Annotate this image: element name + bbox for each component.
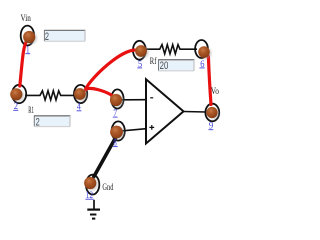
node 6 terminal ellipse — [195, 40, 208, 58]
node 5 number label — [137, 60, 142, 70]
node 7 ball — [112, 95, 124, 107]
red wire node6 to node9 — [208, 57, 211, 105]
node 2 terminal ellipse — [12, 85, 26, 103]
op-amp minus sign — [150, 97, 153, 99]
wire node7 to op-amp minus input — [120, 99, 146, 101]
svg-text:20: 20 — [160, 60, 169, 72]
ground node ball — [86, 178, 98, 190]
red wire node4 to node5 — [86, 50, 135, 90]
node 6 number label — [200, 60, 205, 70]
node 9 number label — [209, 121, 214, 131]
svg-text:2: 2 — [36, 116, 40, 128]
node 5 ball — [137, 46, 149, 58]
svg-text:Gnd: Gnd — [102, 183, 113, 193]
wire op-amp output to node9 — [184, 111, 207, 114]
value box for Vin (2) — [44, 30, 86, 43]
node 6 ball — [200, 48, 211, 59]
value box for Rf (20) — [158, 60, 194, 72]
op-amp plus sign — [149, 125, 154, 130]
node 8 terminal ellipse — [112, 121, 125, 140]
node 8 number label — [113, 138, 118, 148]
value box for R1 (2) — [34, 116, 71, 129]
node 8 ball — [112, 127, 124, 139]
node 4 ball — [76, 89, 88, 101]
red wire node1 to node2 — [20, 41, 27, 87]
svg-text:Vin: Vin — [21, 14, 32, 24]
svg-text:6: 6 — [200, 60, 204, 70]
node 1 ball — [25, 32, 37, 44]
op-amp U1 triangle — [146, 79, 184, 143]
svg-text:Rf: Rf — [150, 56, 157, 67]
svg-text:2: 2 — [45, 31, 49, 43]
node 7 terminal ellipse — [111, 89, 123, 108]
ground node number label 12 — [85, 191, 93, 201]
node 9 terminal ellipse — [205, 104, 219, 122]
node 1 number label — [25, 46, 30, 56]
node 9 ball — [208, 108, 219, 119]
node 2 number label — [13, 102, 18, 112]
node 4 terminal ellipse — [74, 85, 87, 103]
wire node8 to op-amp plus input — [121, 129, 146, 131]
wire node5-Rf-node6 — [145, 45, 197, 54]
svg-text:Vo: Vo — [211, 87, 219, 97]
red wire node4 to node7 — [86, 88, 112, 95]
ground symbol — [93, 200, 95, 209]
node 7 number label — [113, 109, 118, 119]
node 1 terminal ellipse (Vin) — [21, 26, 34, 46]
ground terminal ellipse — [86, 175, 99, 195]
wire node2-R1-node4 — [25, 91, 76, 100]
node 2 ball — [12, 90, 24, 102]
svg-text:R1: R1 — [28, 106, 34, 116]
node 5 terminal ellipse — [133, 41, 146, 60]
node 4 number label — [77, 103, 82, 113]
thick wire node8 to ground node — [94, 136, 117, 177]
